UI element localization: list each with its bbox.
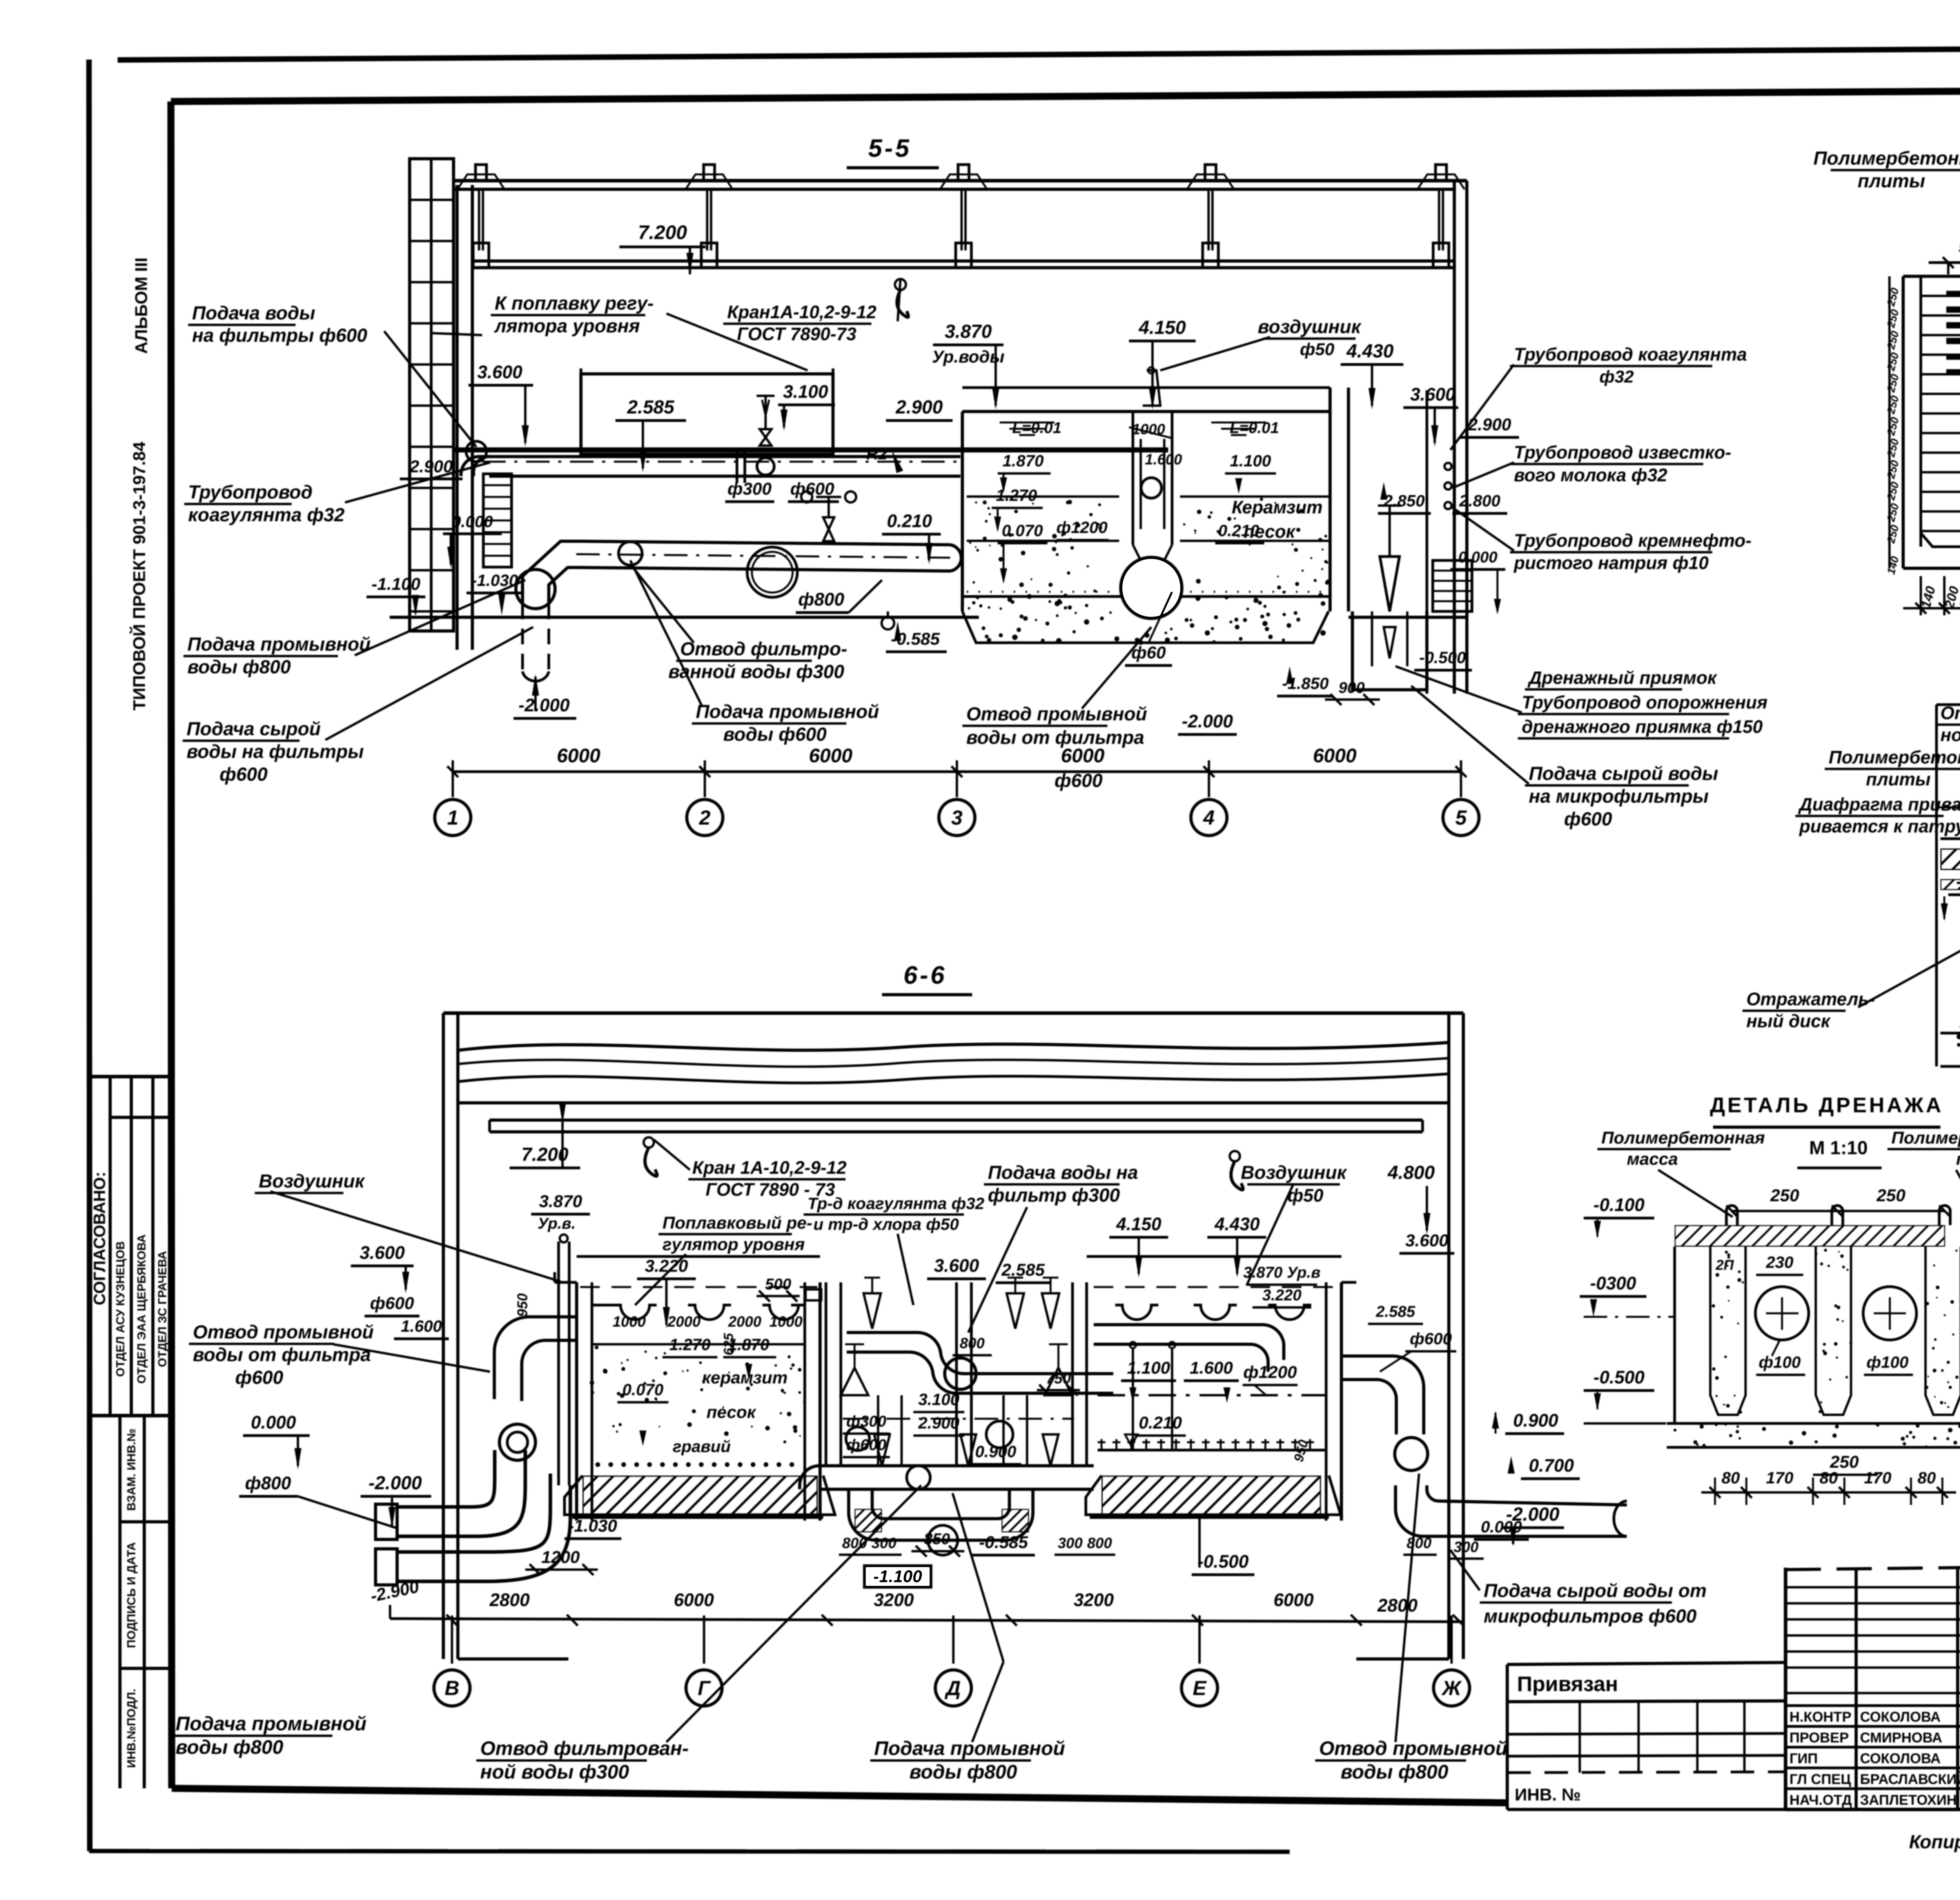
svg-text:лятора уровня: лятора уровня bbox=[494, 316, 640, 337]
5-5 lower pipe ф800 bbox=[581, 541, 950, 545]
svg-text:950: 950 bbox=[514, 1293, 530, 1317]
plan bottom edge bbox=[1921, 533, 1960, 547]
svg-text:Керамзит: Керамзит bbox=[1232, 497, 1323, 517]
svg-text:4.800: 4.800 bbox=[1387, 1162, 1435, 1183]
svg-text:0.900: 0.900 bbox=[1513, 1410, 1559, 1430]
5-5 pipe ф1200 circle bbox=[1121, 557, 1182, 618]
5-5 water tanks right bbox=[961, 412, 964, 611]
svg-text:0.070: 0.070 bbox=[1002, 521, 1043, 540]
5-5 pipe at 2.900 bbox=[489, 455, 960, 458]
svg-text:ф1200: ф1200 bbox=[1243, 1363, 1297, 1382]
svg-text:3.600: 3.600 bbox=[477, 362, 523, 382]
5-5 header tank bbox=[581, 374, 833, 454]
svg-text:1.100: 1.100 bbox=[1230, 451, 1271, 470]
svg-text:песок: песок bbox=[1243, 521, 1296, 542]
svg-text:5-5: 5-5 bbox=[868, 134, 912, 162]
5-5 pipe elbow down-left bbox=[523, 541, 581, 604]
svg-text:2.850: 2.850 bbox=[1383, 491, 1425, 510]
svg-text:3.870: 3.870 bbox=[539, 1192, 583, 1211]
6-6 right side elbow pipes bbox=[1341, 1356, 1424, 1434]
svg-text:250: 250 bbox=[1885, 480, 1901, 502]
svg-text:250: 250 bbox=[1885, 524, 1901, 545]
5-5 crane hook 1 bbox=[895, 279, 906, 290]
svg-text:воды на фильтры: воды на фильтры bbox=[187, 742, 364, 762]
svg-text:Трубопровод известко-: Трубопровод известко- bbox=[1514, 442, 1731, 462]
detail left boundary bbox=[1935, 705, 1938, 1066]
svg-text:Ж: Ж bbox=[1441, 1677, 1462, 1700]
svg-text:-2.000: -2.000 bbox=[1506, 1504, 1559, 1525]
svg-text:2.900: 2.900 bbox=[1468, 415, 1512, 434]
5-5 left stair ladder bbox=[483, 474, 512, 567]
svg-text:ф50: ф50 bbox=[1300, 340, 1334, 359]
svg-text:воды ф800: воды ф800 bbox=[176, 1736, 283, 1758]
6-6 upper pipe right tank bbox=[1094, 1325, 1284, 1360]
6-6 standpipe f50 bbox=[557, 1242, 560, 1485]
svg-text:Отвод фильтрован-: Отвод фильтрован- bbox=[480, 1737, 689, 1759]
svg-text:6000: 6000 bbox=[674, 1590, 714, 1610]
5-5 dimension line bottom bbox=[453, 771, 1461, 773]
5-5 steps hatched box bbox=[1433, 560, 1472, 611]
svg-text:2.585: 2.585 bbox=[1376, 1303, 1416, 1320]
6-6 drainage nozzles row right tank bbox=[1098, 1449, 1325, 1452]
plan grid box bbox=[1902, 276, 1905, 568]
5-5 central channel bbox=[1132, 412, 1134, 545]
svg-text:-0.500: -0.500 bbox=[1593, 1367, 1645, 1387]
svg-text:7.200: 7.200 bbox=[638, 221, 687, 243]
svg-text:Отвод промывной: Отвод промывной bbox=[193, 1322, 374, 1343]
5-5 dashed circle pipe section bbox=[747, 547, 797, 597]
svg-text:Трубопровод коагулянта: Трубопровод коагулянта bbox=[1514, 344, 1747, 364]
svg-text:Подача сырой: Подача сырой bbox=[187, 719, 321, 740]
svg-text:3.220: 3.220 bbox=[645, 1256, 688, 1276]
svg-text:Кран 1А-10,2-9-12: Кран 1А-10,2-9-12 bbox=[692, 1157, 847, 1178]
5-5 flange on ф800 bbox=[619, 542, 642, 565]
svg-text:Трубопровод кремнефто-: Трубопровод кремнефто- bbox=[1514, 530, 1751, 551]
svg-text:-2.000: -2.000 bbox=[1182, 711, 1233, 731]
6-6 axis bubbles В Г Д Е Ж bbox=[451, 1615, 453, 1664]
svg-text:Трубопровод: Трубопровод bbox=[188, 482, 312, 503]
svg-text:Подача сырой воды от: Подача сырой воды от bbox=[1484, 1581, 1707, 1601]
svg-text:ф1200: ф1200 bbox=[1056, 518, 1108, 537]
6-6 left filter tank bbox=[575, 1282, 578, 1521]
svg-text:песок: песок bbox=[706, 1403, 757, 1422]
detail centerlines bbox=[1936, 807, 1960, 809]
svg-text:ОТДЕЛ АСУ КУЗНЕЦОВ: ОТДЕЛ АСУ КУЗНЕЦОВ bbox=[114, 1241, 127, 1377]
svg-text:-1.100: -1.100 bbox=[873, 1567, 922, 1586]
6-6 roof band wavy lines bbox=[458, 1042, 1449, 1050]
svg-text:Дренажный приямок: Дренажный приямок bbox=[1527, 667, 1718, 688]
svg-text:Е: Е bbox=[1193, 1677, 1207, 1700]
svg-text:800: 800 bbox=[960, 1335, 984, 1352]
svg-text:ф100: ф100 bbox=[1866, 1353, 1908, 1371]
svg-text:керамзит: керамзит bbox=[702, 1368, 788, 1387]
6-6 center extra piping bbox=[955, 1282, 958, 1466]
svg-text:2800: 2800 bbox=[1377, 1595, 1418, 1615]
svg-text:Отвод промывной: Отвод промывной bbox=[1319, 1737, 1507, 1759]
svg-text:3.870 Ур.в: 3.870 Ур.в bbox=[1243, 1264, 1320, 1281]
svg-text:ф600: ф600 bbox=[235, 1367, 283, 1388]
svg-text:ГОСТ 7890-73: ГОСТ 7890-73 bbox=[737, 324, 857, 344]
svg-text:170: 170 bbox=[1864, 1469, 1891, 1487]
svg-text:2.900: 2.900 bbox=[409, 457, 453, 476]
svg-text:3.600: 3.600 bbox=[359, 1242, 405, 1263]
plan top dimension row bbox=[1929, 261, 1960, 264]
svg-text:воздушник: воздушник bbox=[1258, 317, 1362, 337]
5-5 right wall bbox=[1453, 181, 1456, 694]
svg-text:1.270: 1.270 bbox=[669, 1335, 710, 1354]
5-5 level line 2.900 thick rail bbox=[455, 448, 1168, 453]
5-5 keramzit stipple right chamber bbox=[1180, 495, 1330, 498]
svg-text:М 1:10: М 1:10 bbox=[1809, 1138, 1867, 1158]
svg-text:Полимербетонные: Полимербетонные bbox=[1813, 148, 1960, 169]
svg-text:ной воды ф300: ной воды ф300 bbox=[480, 1761, 629, 1783]
svg-text:ф50: ф50 bbox=[1287, 1185, 1323, 1206]
svg-text:1000: 1000 bbox=[613, 1314, 646, 1330]
svg-text:6000: 6000 bbox=[557, 745, 600, 767]
svg-text:ИНВ.№ПОДЛ.: ИНВ.№ПОДЛ. bbox=[125, 1689, 138, 1768]
left stamp lower strip bbox=[118, 1416, 122, 1788]
svg-text:Подача промывной: Подача промывной bbox=[696, 702, 879, 722]
svg-text:250: 250 bbox=[1885, 502, 1901, 524]
small detail bottom dims 80 170 bbox=[1701, 1491, 1956, 1494]
svg-text:140: 140 bbox=[1885, 555, 1901, 576]
svg-text:ф300: ф300 bbox=[846, 1413, 886, 1430]
6-6 center top valves bbox=[864, 1293, 881, 1329]
svg-text:3.600: 3.600 bbox=[1405, 1231, 1449, 1250]
svg-text:плиты: плиты bbox=[1866, 769, 1931, 789]
svg-text:ИНВ. №: ИНВ. № bbox=[1515, 1785, 1581, 1804]
svg-text:Полимербетонная: Полимербетонная bbox=[1601, 1128, 1765, 1148]
6-6 crane hook left bbox=[644, 1137, 654, 1148]
svg-text:ОТДЕЛ ЭАА ЩЕРБЯКОВА: ОТДЕЛ ЭАА ЩЕРБЯКОВА bbox=[135, 1234, 148, 1383]
svg-text:3: 3 bbox=[951, 807, 963, 829]
6-6 pipe ф1200 dashdot bbox=[1098, 1394, 1325, 1396]
svg-text:4.430: 4.430 bbox=[1346, 341, 1394, 362]
6-6 center lower valves bbox=[874, 1434, 890, 1466]
svg-text:250: 250 bbox=[1885, 373, 1901, 394]
svg-text:2.900: 2.900 bbox=[918, 1414, 959, 1432]
svg-text:Копировал: Коршунова: Копировал: Коршунова bbox=[1909, 1832, 1960, 1853]
svg-text:коагулянта ф32: коагулянта ф32 bbox=[188, 505, 345, 526]
svg-text:250: 250 bbox=[1885, 286, 1901, 308]
svg-text:1.600: 1.600 bbox=[1190, 1358, 1233, 1378]
svg-text:0.000: 0.000 bbox=[1458, 549, 1497, 566]
svg-text:1.870: 1.870 bbox=[1002, 451, 1044, 470]
svg-text:170: 170 bbox=[1766, 1469, 1793, 1487]
6-6 pipe end stubs bbox=[376, 1504, 397, 1539]
svg-text:ванной воды ф300: ванной воды ф300 bbox=[668, 662, 844, 682]
svg-text:-0.500: -0.500 bbox=[1419, 648, 1466, 667]
svg-text:6000: 6000 bbox=[1313, 745, 1356, 767]
svg-text:Откос из цемент-: Откос из цемент- bbox=[1940, 703, 1960, 723]
svg-text:ф600: ф600 bbox=[790, 479, 835, 499]
svg-text:1.270: 1.270 bbox=[996, 486, 1037, 504]
6-6 right lower pipe to right bbox=[1396, 1485, 1627, 1536]
5-5 right pit bbox=[1352, 611, 1427, 690]
5-5 underdrain dotted line bbox=[967, 591, 1328, 593]
svg-text:0.210: 0.210 bbox=[887, 511, 932, 531]
svg-text:Подача воды на: Подача воды на bbox=[988, 1162, 1138, 1183]
svg-text:масса: масса bbox=[1627, 1149, 1678, 1169]
svg-text:ГЛ СПЕЦ: ГЛ СПЕЦ bbox=[1789, 1771, 1851, 1787]
5-5 valve on ф800 bbox=[823, 517, 834, 541]
svg-text:-0.585: -0.585 bbox=[979, 1533, 1028, 1552]
svg-text:2П: 2П bbox=[1715, 1257, 1734, 1273]
svg-text:1000: 1000 bbox=[769, 1314, 803, 1330]
svg-text:Отвод промывной: Отвод промывной bbox=[966, 704, 1147, 725]
svg-text:-1.030: -1.030 bbox=[471, 571, 518, 589]
svg-text:250: 250 bbox=[1885, 416, 1901, 437]
svg-text:250: 250 bbox=[1876, 1186, 1906, 1205]
svg-text:Отражатель-: Отражатель- bbox=[1746, 989, 1875, 1009]
svg-text:ф800: ф800 bbox=[245, 1473, 291, 1493]
svg-text:воды ф800: воды ф800 bbox=[187, 657, 291, 678]
svg-text:воды ф600: воды ф600 bbox=[723, 724, 827, 745]
svg-text:Подача промывной: Подача промывной bbox=[176, 1713, 367, 1735]
6-6 right filter tank bbox=[1085, 1282, 1088, 1466]
svg-text:2.900: 2.900 bbox=[895, 397, 943, 418]
6-6 left side elbow pipes bbox=[494, 1317, 577, 1399]
svg-text:4.150: 4.150 bbox=[1138, 317, 1186, 338]
svg-text:2.585: 2.585 bbox=[627, 397, 675, 418]
svg-text:3.870: 3.870 bbox=[945, 321, 992, 342]
small detail body with channels bbox=[1673, 1247, 1676, 1423]
svg-text:800: 800 bbox=[1087, 1535, 1112, 1552]
5-5 pit pump cone bbox=[1380, 557, 1399, 611]
main frame bbox=[171, 88, 1960, 102]
svg-text:на микрофильтры: на микрофильтры bbox=[1529, 786, 1709, 807]
svg-text:-2.000: -2.000 bbox=[519, 695, 570, 715]
svg-text:250: 250 bbox=[1770, 1186, 1799, 1205]
left stamp column box bbox=[91, 1075, 172, 1079]
svg-text:-0300: -0300 bbox=[1590, 1273, 1636, 1293]
svg-text:и тр-д хлора ф50: и тр-д хлора ф50 bbox=[813, 1215, 959, 1233]
svg-text:ривается к патрубку: ривается к патрубку bbox=[1798, 816, 1960, 836]
svg-text:ф600: ф600 bbox=[1054, 771, 1103, 791]
5-5 roof beams bbox=[454, 179, 1467, 183]
svg-text:2.800: 2.800 bbox=[1459, 491, 1500, 510]
6-6 left big outlet pipes bbox=[397, 1450, 495, 1507]
svg-text:ПОДПИСЬ И ДАТА: ПОДПИСЬ И ДАТА bbox=[125, 1542, 138, 1648]
svg-text:250: 250 bbox=[1885, 330, 1901, 351]
svg-text:Подача промывной: Подача промывной bbox=[874, 1737, 1065, 1759]
svg-text:2000: 2000 bbox=[667, 1314, 701, 1330]
svg-text:2: 2 bbox=[699, 807, 711, 829]
svg-text:воды ф800: воды ф800 bbox=[1341, 1761, 1448, 1783]
title block top dashed line bbox=[1786, 1561, 1960, 1570]
svg-text:80: 80 bbox=[1722, 1469, 1740, 1487]
5-5 water surface marks bbox=[1000, 422, 1054, 424]
svg-text:230: 230 bbox=[1766, 1253, 1793, 1271]
svg-text:Подача сырой воды: Подача сырой воды bbox=[1529, 763, 1718, 784]
svg-text:3.100: 3.100 bbox=[918, 1390, 959, 1409]
svg-text:Воздушник: Воздушник bbox=[1241, 1162, 1347, 1183]
svg-text:В: В bbox=[445, 1677, 459, 1700]
svg-text:ф32: ф32 bbox=[1599, 367, 1634, 386]
6-6 tank top rims bbox=[577, 1255, 820, 1258]
5-5 wall pier bbox=[456, 185, 459, 650]
svg-text:300: 300 bbox=[1454, 1539, 1478, 1556]
svg-text:К поплавку регу-: К поплавку регу- bbox=[495, 293, 654, 314]
svg-text:ГИП: ГИП bbox=[1789, 1750, 1818, 1766]
6-6 water level dashes bbox=[580, 1286, 817, 1288]
svg-text:СОГЛАСОВАНО:: СОГЛАСОВАНО: bbox=[90, 1172, 109, 1305]
svg-text:плита: плита bbox=[1956, 1149, 1960, 1169]
svg-text:СОКОЛОВА: СОКОЛОВА bbox=[1860, 1709, 1941, 1725]
svg-text:ф600: ф600 bbox=[220, 764, 268, 785]
svg-text:-2.000: -2.000 bbox=[368, 1473, 422, 1494]
small detail pins bbox=[1726, 1206, 1737, 1225]
svg-text:-0.100: -0.100 bbox=[1593, 1195, 1645, 1215]
5-5 floor slab stipple bbox=[962, 595, 1330, 598]
svg-text:ф100: ф100 bbox=[1759, 1353, 1800, 1371]
svg-text:ф600: ф600 bbox=[846, 1436, 886, 1454]
svg-text:Привязан: Привязан bbox=[1517, 1672, 1618, 1696]
svg-text:1: 1 bbox=[447, 807, 459, 829]
small detail circles ф100 bbox=[1755, 1287, 1809, 1340]
5-5 hanger rods bbox=[478, 189, 480, 250]
svg-text:ный диск: ный диск bbox=[1746, 1011, 1831, 1031]
svg-text:ОТДЕЛ ЗС ГРАЧЕВА: ОТДЕЛ ЗС ГРАЧЕВА bbox=[156, 1251, 169, 1367]
svg-text:ЗАПЛЕТОХИН: ЗАПЛЕТОХИН bbox=[1860, 1792, 1957, 1808]
detail bottom concrete stipple strip bbox=[1940, 1032, 1960, 1035]
plan left edge dim line bbox=[1888, 276, 1891, 568]
5-5 right wall pipes stubs bbox=[1426, 390, 1428, 694]
svg-text:3.600: 3.600 bbox=[1410, 384, 1455, 404]
svg-text:850: 850 bbox=[924, 1530, 950, 1548]
6-6 lower manifold center bbox=[819, 1464, 1094, 1467]
svg-text:-1.030: -1.030 bbox=[568, 1516, 617, 1536]
svg-text:-0.500: -0.500 bbox=[1198, 1551, 1249, 1572]
6-6 keramzit sand layers left tank bbox=[592, 1343, 805, 1345]
svg-text:500: 500 bbox=[1959, 236, 1960, 257]
svg-text:1.100: 1.100 bbox=[1127, 1358, 1171, 1378]
svg-text:ВЗАМ. ИНВ.№: ВЗАМ. ИНВ.№ bbox=[125, 1429, 138, 1511]
svg-text:3200: 3200 bbox=[1074, 1590, 1114, 1610]
svg-text:6-6: 6-6 bbox=[904, 961, 947, 989]
svg-text:Тр-д коагулянта ф32: Тр-д коагулянта ф32 bbox=[808, 1194, 984, 1213]
6-6 right tank water dashes bbox=[1094, 1286, 1339, 1288]
6-6 center U manifold bbox=[849, 1489, 1033, 1540]
6-6 S-pipe top bbox=[847, 1333, 1113, 1374]
svg-text:ф600: ф600 bbox=[1410, 1329, 1452, 1348]
6-6 crane beam bbox=[490, 1119, 1423, 1122]
title block small grid left bbox=[1784, 1568, 1788, 1809]
6-6 crane hook right bbox=[1230, 1151, 1240, 1161]
svg-text:ного раствора 1:3: ного раствора 1:3 bbox=[1940, 725, 1960, 745]
outer top border line bbox=[118, 46, 1960, 60]
svg-text:гравий: гравий bbox=[673, 1437, 731, 1456]
svg-text:800: 800 bbox=[1406, 1535, 1431, 1552]
small detail dims top 250 250 bbox=[1732, 1210, 1945, 1212]
svg-text:80: 80 bbox=[1918, 1469, 1936, 1487]
svg-text:Подача воды: Подача воды bbox=[192, 303, 315, 324]
svg-text:плиты: плиты bbox=[1858, 171, 1925, 192]
svg-text:ф300: ф300 bbox=[728, 479, 772, 499]
5-5 axis bubbles bbox=[435, 800, 471, 836]
outer left border line bbox=[89, 60, 90, 1851]
svg-text:-1.100: -1.100 bbox=[372, 575, 421, 594]
svg-text:3200: 3200 bbox=[874, 1590, 914, 1610]
6-6 building outline bbox=[442, 1013, 445, 1659]
svg-text:воды от фильтра: воды от фильтра bbox=[193, 1345, 371, 1365]
svg-text:L=0.01: L=0.01 bbox=[1012, 419, 1062, 437]
svg-text:0.900: 0.900 bbox=[975, 1442, 1016, 1461]
5-5 flange joint ф300/ф600 bbox=[736, 450, 739, 483]
5-5 keramzit stipple left chamber bbox=[967, 495, 1119, 498]
svg-text:2000: 2000 bbox=[728, 1314, 762, 1330]
svg-text:фильтр ф300: фильтр ф300 bbox=[988, 1185, 1120, 1206]
svg-text:250: 250 bbox=[1885, 308, 1901, 330]
svg-text:ПРОВЕР: ПРОВЕР bbox=[1789, 1730, 1849, 1746]
svg-text:900: 900 bbox=[1339, 679, 1365, 696]
svg-text:БРАСЛАВСКИЙ: БРАСЛАВСКИЙ bbox=[1860, 1771, 1960, 1787]
svg-text:0.000: 0.000 bbox=[251, 1412, 296, 1432]
svg-text:воды ф800: воды ф800 bbox=[909, 1761, 1017, 1783]
5-5 left small pipe elbow at wall bbox=[461, 457, 489, 476]
svg-text:Поплавковый ре-: Поплавковый ре- bbox=[662, 1213, 812, 1233]
svg-text:625: 625 bbox=[721, 1333, 736, 1356]
svg-text:СОКОЛОВА: СОКОЛОВА bbox=[1860, 1750, 1941, 1766]
svg-text:Д: Д bbox=[944, 1677, 961, 1700]
6-6 center pipes block bbox=[825, 1282, 828, 1466]
svg-text:воды от фильтра: воды от фильтра bbox=[966, 727, 1144, 748]
6-6 right tank corbels bbox=[1115, 1305, 1158, 1320]
svg-text:2.585: 2.585 bbox=[1001, 1260, 1045, 1280]
svg-text:R2: R2 bbox=[866, 444, 887, 463]
svg-text:НАЧ.ОТД: НАЧ.ОТД bbox=[1789, 1792, 1852, 1808]
svg-text:3.220: 3.220 bbox=[1262, 1287, 1301, 1304]
svg-text:ф600: ф600 bbox=[1564, 809, 1612, 830]
outer bottom border line bbox=[89, 1851, 1290, 1852]
svg-text:0.210: 0.210 bbox=[1139, 1413, 1182, 1432]
svg-text:0.070: 0.070 bbox=[622, 1380, 663, 1399]
5-5 vent funnel bbox=[1143, 370, 1160, 406]
svg-text:ристого натрия ф10: ристого натрия ф10 bbox=[1513, 553, 1709, 573]
svg-text:СМИРНОВА: СМИРНОВА bbox=[1860, 1730, 1942, 1746]
6-6 dimension line bbox=[390, 1619, 1462, 1622]
svg-text:ф800: ф800 bbox=[798, 589, 844, 609]
svg-text:0.700: 0.700 bbox=[1529, 1455, 1574, 1476]
svg-text:вого молока ф32: вого молока ф32 bbox=[1514, 465, 1668, 485]
6-6 center circles flanges bbox=[945, 1358, 976, 1389]
svg-text:0.000: 0.000 bbox=[452, 512, 493, 531]
svg-text:ф600: ф600 bbox=[370, 1294, 414, 1313]
svg-text:250: 250 bbox=[1885, 437, 1901, 459]
svg-text:Полимербетонная: Полимербетонная bbox=[1891, 1128, 1960, 1148]
6-6 basement floor bbox=[572, 1516, 823, 1519]
svg-text:3.600: 3.600 bbox=[934, 1255, 979, 1276]
svg-text:дренажного приямка ф150: дренажного приямка ф150 bbox=[1522, 716, 1763, 737]
svg-text:L=0.01: L=0.01 bbox=[1230, 419, 1279, 437]
svg-text:5: 5 bbox=[1455, 807, 1467, 829]
svg-text:Отвод фильтро-: Отвод фильтро- bbox=[680, 639, 847, 660]
svg-text:1200: 1200 bbox=[541, 1548, 580, 1567]
svg-text:250: 250 bbox=[1885, 394, 1901, 416]
svg-text:Н.КОНТР: Н.КОНТР bbox=[1789, 1709, 1851, 1725]
detail top boundary with break bbox=[1936, 703, 1960, 706]
svg-text:Подача промывной: Подача промывной bbox=[187, 634, 370, 655]
svg-text:микрофильтров ф600: микрофильтров ф600 bbox=[1484, 1606, 1697, 1627]
svg-text:Ур.в.: Ур.в. bbox=[538, 1215, 576, 1232]
svg-text:АЛЬБОМ III: АЛЬБОМ III bbox=[132, 257, 151, 354]
svg-text:гулятор уровня: гулятор уровня bbox=[662, 1235, 805, 1254]
5-5 drain fitting bbox=[882, 617, 894, 629]
svg-text:Г: Г bbox=[698, 1677, 711, 1700]
svg-text:300: 300 bbox=[871, 1535, 896, 1552]
svg-text:2800: 2800 bbox=[489, 1590, 530, 1610]
svg-text:4: 4 bbox=[1203, 807, 1215, 829]
